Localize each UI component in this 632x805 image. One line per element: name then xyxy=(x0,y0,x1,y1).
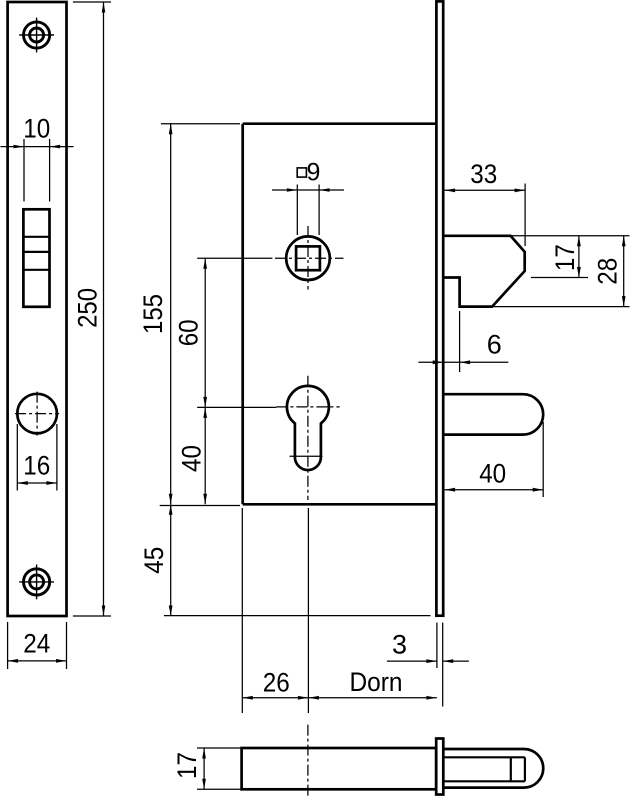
svg-text:33: 33 xyxy=(470,159,497,189)
svg-text:3: 3 xyxy=(392,629,407,659)
svg-text:60: 60 xyxy=(174,319,204,346)
svg-text:250: 250 xyxy=(73,288,103,328)
svg-text:155: 155 xyxy=(138,294,168,334)
svg-text:9: 9 xyxy=(307,158,321,186)
svg-text:26: 26 xyxy=(263,667,290,697)
svg-text:40: 40 xyxy=(177,445,207,472)
svg-text:40: 40 xyxy=(479,459,506,489)
svg-text:28: 28 xyxy=(593,258,623,285)
svg-text:6: 6 xyxy=(487,330,502,360)
svg-text:10: 10 xyxy=(23,114,50,144)
svg-text:Dorn: Dorn xyxy=(350,667,403,697)
svg-text:16: 16 xyxy=(23,451,50,481)
svg-text:17: 17 xyxy=(550,244,580,271)
svg-text:24: 24 xyxy=(23,629,50,659)
svg-text:45: 45 xyxy=(139,547,169,574)
svg-text:17: 17 xyxy=(172,752,202,779)
